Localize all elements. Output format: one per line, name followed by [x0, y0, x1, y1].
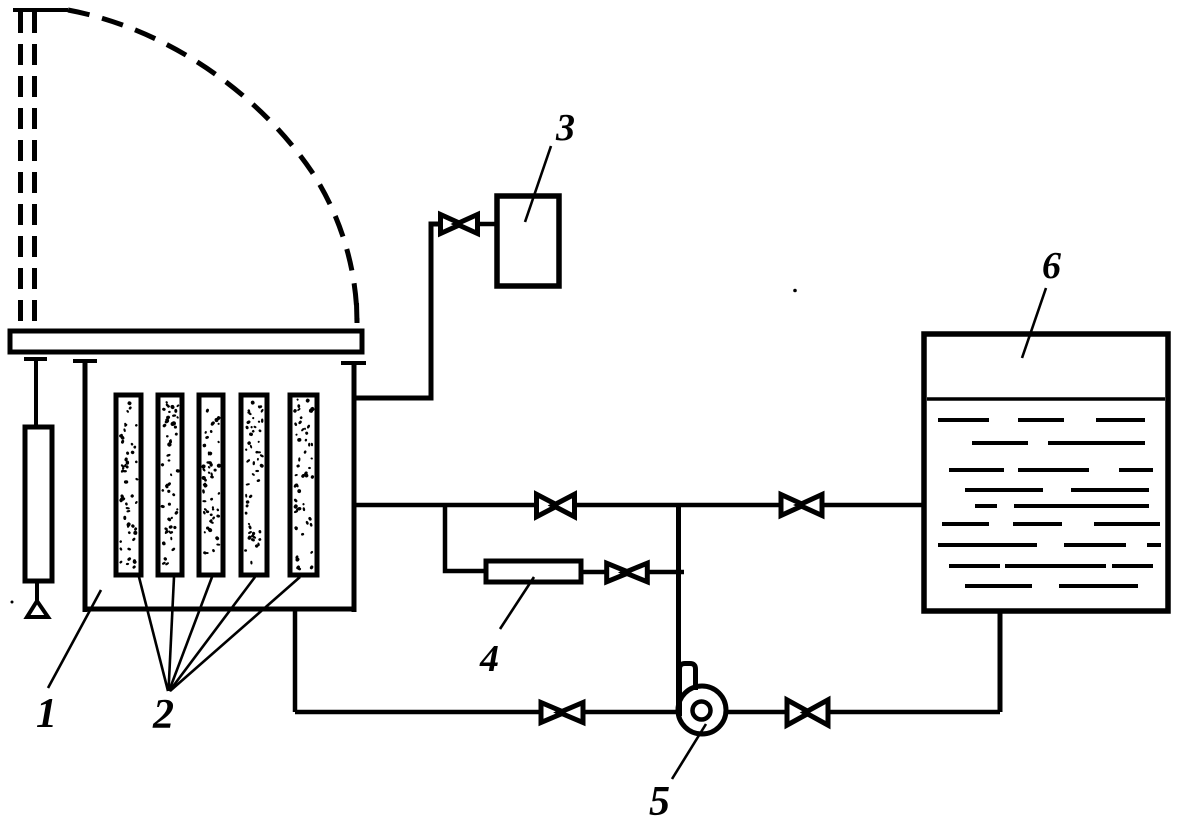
- bath right wall: [352, 363, 357, 612]
- hanger rod of device 1: [34, 359, 38, 428]
- electrode plate 2d: [241, 395, 267, 575]
- leader to label 5: [672, 724, 706, 779]
- valve V3 on bypass: [607, 563, 648, 582]
- speck near tank top left: [793, 289, 797, 293]
- bath right wall tick: [341, 361, 366, 365]
- speck left of device tip: [11, 601, 14, 604]
- lid raised, dashed right line: [32, 12, 37, 331]
- device 1 tip triangle: [27, 601, 48, 617]
- svg-text:5: 5: [649, 779, 670, 817]
- pipe valve V3 to junction: [649, 570, 684, 575]
- lid bar over bath: [10, 331, 362, 352]
- bottom pipe right pump to tank: [724, 710, 1000, 715]
- lid raised, dashed left line: [18, 12, 23, 331]
- valve at box 3: [441, 215, 478, 234]
- tank 6: [924, 334, 1168, 611]
- valve V4 on bottom right pipe: [787, 700, 828, 725]
- pipe filter to valve V3: [581, 570, 605, 575]
- pump 5 hub: [693, 702, 711, 720]
- lid top edge (solid): [13, 8, 68, 12]
- pump 5 casing: [678, 686, 726, 734]
- leader to label 1: [48, 590, 101, 688]
- tank water level line: [927, 397, 1165, 401]
- box 3 (rectifier): [497, 196, 559, 286]
- hanger tick of device 1: [24, 357, 47, 361]
- bypass branch down and to filter 4: [445, 505, 487, 571]
- leader fan from plates to label 2: [139, 577, 300, 691]
- pipe valve to box 3: [480, 222, 497, 227]
- lid swing arc (dashed): [68, 10, 357, 322]
- device 1 lower stem: [35, 581, 39, 603]
- svg-text:3: 3: [555, 107, 575, 149]
- tank water dashes: [938, 420, 1161, 586]
- lid swing arc final dash: [354, 303, 360, 323]
- bath left wall tick: [73, 359, 97, 363]
- svg-text:1: 1: [36, 691, 57, 737]
- electrode plate 2e: [290, 395, 317, 575]
- electrode plate 2c: [199, 395, 223, 575]
- device 1 body (tube): [25, 427, 52, 581]
- svg-text:6: 6: [1042, 245, 1061, 287]
- leader to label 4: [500, 577, 534, 629]
- svg-text:4: 4: [479, 638, 499, 680]
- tank down pipe: [998, 611, 1003, 712]
- electrode plate 2b: [158, 395, 182, 575]
- component 4 (filter): [486, 561, 581, 582]
- svg-text:2: 2: [152, 692, 174, 738]
- pump 5 volute: [680, 664, 696, 717]
- bath bottom: [83, 607, 356, 612]
- valve V1 on middle pipe: [537, 494, 575, 516]
- middle pipe bath to tank: [356, 503, 924, 508]
- leader to label 3: [525, 146, 551, 222]
- electrode plate 2a: [116, 395, 141, 575]
- leader to label 6: [1022, 288, 1046, 358]
- bath drain down pipe: [293, 610, 298, 712]
- valve V5 on bottom left pipe: [541, 703, 583, 723]
- valve V2 near tank: [781, 495, 822, 516]
- junction vertical pipe to pump: [676, 505, 681, 712]
- bottom pipe left from bath drain to pump: [295, 710, 680, 715]
- bath left wall: [83, 361, 88, 612]
- pipe from bath to valve of box 3: [356, 224, 438, 398]
